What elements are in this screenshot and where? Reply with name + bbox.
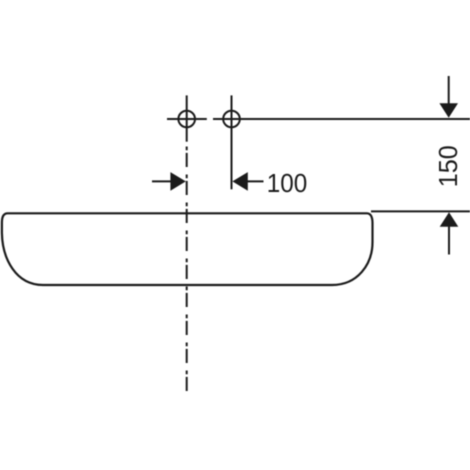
basin outline (2, 213, 373, 285)
lower horizontal line at right (371, 210, 470, 212)
dimension 150 down arrow stem (448, 76, 450, 105)
upper horizontal line to right edge (213, 118, 470, 120)
mounting hole right circle (223, 111, 240, 128)
svg-text:100: 100 (267, 170, 308, 198)
svg-text:150: 150 (435, 145, 463, 187)
dimension 100 left line (152, 180, 172, 182)
dimension 150 up arrow stem (448, 225, 450, 255)
mounting hole left circle (178, 111, 195, 128)
dimension 100 left arrowhead (170, 172, 185, 191)
dimension 150 up arrowhead (440, 212, 459, 227)
dimension 100 right line (247, 180, 264, 182)
dimension 100 right arrowhead (232, 172, 247, 191)
left hole horizontal crosshair (167, 118, 207, 120)
centerline vertical solid part through left hole (186, 95, 188, 141)
centerline dash-dot (186, 147, 188, 394)
dimension 150 down arrowhead (439, 103, 458, 118)
right hole vertical extension line (231, 95, 233, 189)
